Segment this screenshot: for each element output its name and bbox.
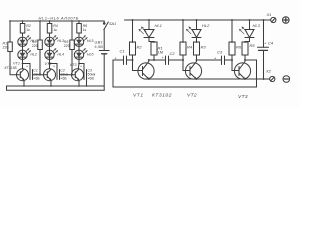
svg-text:HL6: HL6 <box>87 52 94 56</box>
resistor R5 220 (base, stage 3) <box>64 20 75 76</box>
LED HL1 <box>139 19 162 43</box>
title label HL1-HL6 AL307B <box>39 15 79 20</box>
resistor R5 (stage 3 collector) <box>242 42 255 61</box>
resistor R1 1M (stage 1 collector) <box>151 42 163 61</box>
svg-text:C3: C3 <box>217 50 223 55</box>
LED HL4 <box>45 46 64 59</box>
LED HL2 <box>187 19 211 43</box>
wire link VT2 collector to C3 <box>197 59 222 61</box>
resistor R3 220 (base, stage 2) <box>32 20 43 76</box>
svg-text:+: + <box>162 55 165 60</box>
wire C1 to VT2 base <box>37 74 44 76</box>
transistor VT1 KT315B <box>5 62 29 87</box>
transistor VT2 <box>44 62 56 87</box>
capacitor C1 <box>115 49 133 65</box>
svg-text:HL1–HL6 АЛ307Б: HL1–HL6 АЛ307Б <box>39 15 79 20</box>
node tap to C1 <box>22 63 24 65</box>
wire top rail <box>125 19 271 21</box>
LED HL5 <box>74 36 93 47</box>
svg-text:КТ315Б: КТ315Б <box>5 66 18 70</box>
resistor R2 1k (collector, stage 1) <box>9 20 31 36</box>
svg-text:C1: C1 <box>120 49 125 54</box>
plus polarity mark <box>283 17 290 24</box>
svg-text:HL5: HL5 <box>87 39 94 43</box>
wire collector VT1 <box>22 60 24 69</box>
svg-text:×6В: ×6В <box>60 76 67 80</box>
svg-text:КТ3102: КТ3102 <box>152 93 172 99</box>
svg-text:X2: X2 <box>265 69 272 74</box>
svg-text:VT2: VT2 <box>45 62 53 66</box>
wire bottom emitter rail <box>7 85 105 87</box>
svg-text:×6В: ×6В <box>88 76 95 80</box>
capacitor C1 10mk x 6V <box>26 65 42 81</box>
svg-text:HL3: HL3 <box>253 23 261 28</box>
svg-text:220: 220 <box>64 44 70 48</box>
svg-text:+: + <box>80 65 82 69</box>
minus polarity mark <box>283 76 290 83</box>
svg-text:SA1: SA1 <box>109 22 116 26</box>
node tap to C3 <box>78 63 80 65</box>
resistor R2 (stage 1 base) <box>130 19 143 61</box>
wire bottom rail <box>144 78 270 80</box>
svg-text:VT3: VT3 <box>70 63 78 67</box>
battery GB1 4.5V <box>95 41 110 91</box>
capacitor C2 10mk x 6V <box>53 65 69 81</box>
LED HL2 <box>18 46 37 59</box>
svg-text:HL1: HL1 <box>155 23 162 28</box>
svg-text:HL2: HL2 <box>202 23 210 28</box>
svg-text:R5: R5 <box>250 43 256 48</box>
resistor R3 (stage 2 collector) <box>194 42 207 60</box>
LED HL1 <box>18 36 37 47</box>
svg-text:220: 220 <box>3 46 9 50</box>
svg-text:4,5В: 4,5В <box>95 45 104 49</box>
svg-text:+: + <box>264 41 267 46</box>
wire outer bottom return <box>7 86 105 90</box>
transistor VT3 <box>232 60 251 100</box>
svg-text:HL2: HL2 <box>30 52 37 56</box>
svg-text:+: + <box>53 65 55 69</box>
switch SA1 <box>103 21 116 51</box>
resistor R6 1k (collector, stage 3) <box>77 20 88 36</box>
resistor R4 (stage 2 base) <box>180 19 193 61</box>
transistor VT2 <box>183 59 202 99</box>
svg-text:1М: 1М <box>158 50 164 55</box>
svg-text:R2: R2 <box>137 45 143 50</box>
svg-text:VT1: VT1 <box>133 93 144 99</box>
node tap to C2 <box>49 63 51 65</box>
svg-text:VT3: VT3 <box>238 94 248 100</box>
wire C2 to VT3 base <box>64 74 74 76</box>
LED HL6 <box>74 46 93 59</box>
capacitor C2 <box>162 51 184 65</box>
wire feedback ring from VT3 collector <box>113 60 257 87</box>
svg-text:R3: R3 <box>201 45 207 50</box>
capacitor C4 <box>258 19 274 80</box>
svg-text:VT1: VT1 <box>13 62 20 66</box>
wire collector VT3 <box>77 60 80 69</box>
svg-text:R4: R4 <box>187 45 193 50</box>
capacitor C3 <box>214 50 232 65</box>
svg-text:220: 220 <box>32 44 38 48</box>
LED HL3 <box>240 19 261 43</box>
terminal X2 <box>265 69 275 82</box>
svg-text:C2: C2 <box>170 51 176 56</box>
terminal X1 <box>266 12 276 23</box>
svg-text:HL4: HL4 <box>57 52 64 56</box>
resistor R1 220 (base, stage 1) <box>3 21 17 75</box>
resistor R6 (stage 3 base) <box>229 19 242 61</box>
svg-text:X1: X1 <box>266 12 272 17</box>
svg-text:×6В: ×6В <box>33 76 40 80</box>
wire top rail <box>10 20 104 22</box>
svg-text:1к: 1к <box>83 28 87 32</box>
svg-text:VT2: VT2 <box>187 93 197 99</box>
capacitor C3 50mk x 6V <box>80 65 96 87</box>
svg-text:R6: R6 <box>236 45 242 50</box>
wire link VT1 collector to C2 <box>149 59 166 61</box>
transistor VT1 KT3102 <box>133 59 173 99</box>
svg-text:+: + <box>26 65 28 69</box>
wire collector VT2 <box>49 60 51 69</box>
svg-text:1к: 1к <box>53 28 57 32</box>
LED HL3 <box>45 36 64 47</box>
resistor R4 1k (collector, stage 2) <box>47 20 58 36</box>
transistor VT3 <box>70 63 84 87</box>
svg-text:1к: 1к <box>26 28 30 32</box>
svg-text:C4: C4 <box>268 41 274 46</box>
